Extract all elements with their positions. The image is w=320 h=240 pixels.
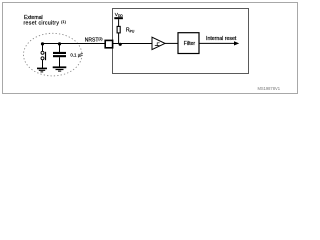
svg-text:Filter: Filter: [184, 41, 196, 47]
outer frame: [3, 3, 298, 94]
NRST pin square: [105, 40, 112, 47]
wire: internal reset output: [199, 42, 235, 44]
capacitor C1 plates: [53, 52, 66, 54]
chip box (device outline): [113, 9, 249, 74]
wire: capacitor top lead: [59, 44, 61, 53]
wire: capacitor bottom lead: [59, 57, 61, 66]
arrowhead: [234, 41, 239, 45]
wire: resistor to NRST line: [118, 33, 120, 44]
wire: Schmitt trigger to filter: [165, 42, 178, 44]
resistor RPU: [117, 26, 120, 33]
wire: push-button bottom lead: [42, 60, 44, 69]
ground under capacitor: [53, 67, 67, 71]
svg-text:Internal reset: Internal reset: [206, 36, 237, 42]
hysteresis symbol: [155, 43, 160, 46]
wire: pin to Schmitt trigger: [113, 43, 153, 45]
node: junction dot at capacitor: [58, 42, 61, 45]
wire: push-button top lead: [42, 44, 44, 52]
wire: VDD to resistor: [118, 19, 120, 26]
node: junction dot at RPU: [119, 43, 122, 46]
push-button actuator bar: [45, 52, 47, 60]
svg-text:reset circuitry (1): reset circuitry (1): [24, 20, 67, 27]
filter block: [178, 33, 199, 54]
ground under push-button: [37, 68, 47, 72]
svg-text:MS19878V1: MS19878V1: [257, 86, 280, 91]
push-button B1 contacts: [41, 51, 44, 54]
svg-text:0.1 µF: 0.1 µF: [70, 53, 83, 58]
external reset circuitry dashed ellipse: [24, 33, 82, 76]
VDD rail bar: [114, 17, 123, 19]
Schmitt trigger buffer: [152, 37, 165, 49]
node: junction dot at push-button: [41, 42, 44, 45]
wire: main NRST line from button to pin: [43, 43, 105, 45]
